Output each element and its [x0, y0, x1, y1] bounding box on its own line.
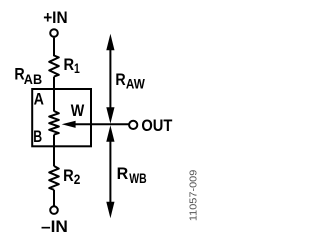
- svg-text:OUT: OUT: [141, 117, 172, 135]
- resistor R2: [49, 166, 59, 190]
- svg-text:B: B: [33, 128, 42, 146]
- terminal +IN: [50, 29, 58, 37]
- wire +IN to R1: [53, 38, 55, 57]
- label RAB: [14, 66, 42, 87]
- dimension arrow RWB: [106, 125, 114, 218]
- svg-text:2: 2: [74, 172, 81, 187]
- svg-text:R: R: [117, 165, 129, 183]
- label R1: [64, 56, 81, 76]
- label R2: [63, 167, 80, 187]
- svg-text:R: R: [63, 167, 74, 185]
- wiper arrow to OUT: [62, 121, 129, 128]
- svg-text:R: R: [64, 56, 75, 74]
- wire R1 to wiper resistor: [53, 77, 55, 112]
- svg-text:11057-009: 11057-009: [189, 169, 200, 221]
- label RAW: [115, 71, 145, 91]
- terminal OUT: [129, 121, 137, 129]
- svg-text:W: W: [71, 102, 85, 120]
- label RWB: [117, 165, 147, 186]
- resistor wiper element: [49, 111, 59, 135]
- svg-text:+IN: +IN: [43, 9, 67, 27]
- dimension arrow RAW: [106, 34, 114, 124]
- svg-text:AB: AB: [24, 72, 42, 87]
- resistor R1: [49, 56, 59, 77]
- svg-text:WB: WB: [129, 171, 146, 186]
- svg-text:AW: AW: [126, 76, 146, 91]
- svg-text:R: R: [115, 71, 125, 89]
- terminal -IN: [50, 206, 58, 214]
- potentiometer box: [32, 89, 91, 146]
- wire R2 to -IN: [53, 190, 55, 206]
- wire wiper element through box bottom to R2: [53, 135, 55, 167]
- svg-text:1: 1: [74, 61, 80, 76]
- svg-text:A: A: [34, 90, 44, 108]
- svg-text:–IN: –IN: [41, 218, 68, 236]
